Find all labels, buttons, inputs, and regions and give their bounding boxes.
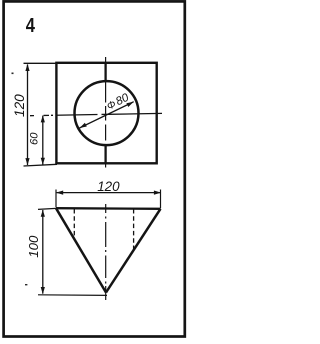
dashed generator right (hole projection) — [133, 209, 135, 250]
dashed generator left (hole projection) — [73, 209, 75, 239]
dim 120 top: extension line right vertex — [160, 190, 162, 209]
dim 100 left: arrow up — [41, 210, 45, 217]
dim 60 left: arrow down — [41, 158, 45, 165]
dim 120 top: arrow left — [56, 191, 63, 195]
bottom extension line at apex level — [38, 294, 107, 297]
svg-text:120: 120 — [97, 179, 120, 194]
dim 120 top: arrow right — [154, 191, 161, 195]
triangle left side — [56, 208, 106, 292]
horizontal centerline (dash-dot, hand-segmented) — [30, 113, 162, 115]
dim 120 left: extension top — [24, 62, 57, 64]
svg-text:4: 4 — [26, 15, 36, 37]
circle Φ80 — [75, 81, 139, 145]
svg-text:120: 120 — [12, 94, 27, 117]
dim 120 left: dimension line — [27, 65, 29, 166]
vertical seam line lower thick segment — [104, 145, 106, 164]
dim 120 left: arrow down — [25, 158, 29, 165]
dim 60 left: arrow up — [41, 115, 45, 122]
speck lower left — [25, 284, 27, 285]
square outline — [56, 63, 156, 164]
svg-text:100: 100 — [26, 235, 41, 258]
dim 120 left: extension bottom — [24, 164, 58, 166]
dim 100 left: dimension line — [42, 210, 44, 294]
dim 60 left: dimension line — [42, 116, 44, 165]
vertical seam line upper thick segment — [104, 63, 106, 82]
dim 120 left: arrow up — [25, 64, 29, 71]
border frame — [4, 1, 185, 336]
triangle top edge — [56, 207, 161, 210]
vertical centerline (thin dash-dot, hand-segmented) — [105, 57, 107, 168]
dim 100 left: arrow down — [41, 287, 45, 294]
Φ80 diameter dimension line — [80, 102, 134, 128]
triangle right side — [106, 209, 161, 293]
speck near left border — [12, 73, 14, 75]
Φ80 arrow lower-left — [80, 123, 87, 128]
dim 120 top: extension line left vertex — [55, 190, 57, 208]
dim 120 top: dimension line — [57, 192, 160, 194]
svg-text:60: 60 — [29, 132, 41, 145]
Φ80 arrow upper-right — [126, 102, 133, 107]
top edge extension to the left — [38, 208, 56, 209]
axis centerline of cone (dash-dot, hand-segmented) — [105, 204, 107, 300]
